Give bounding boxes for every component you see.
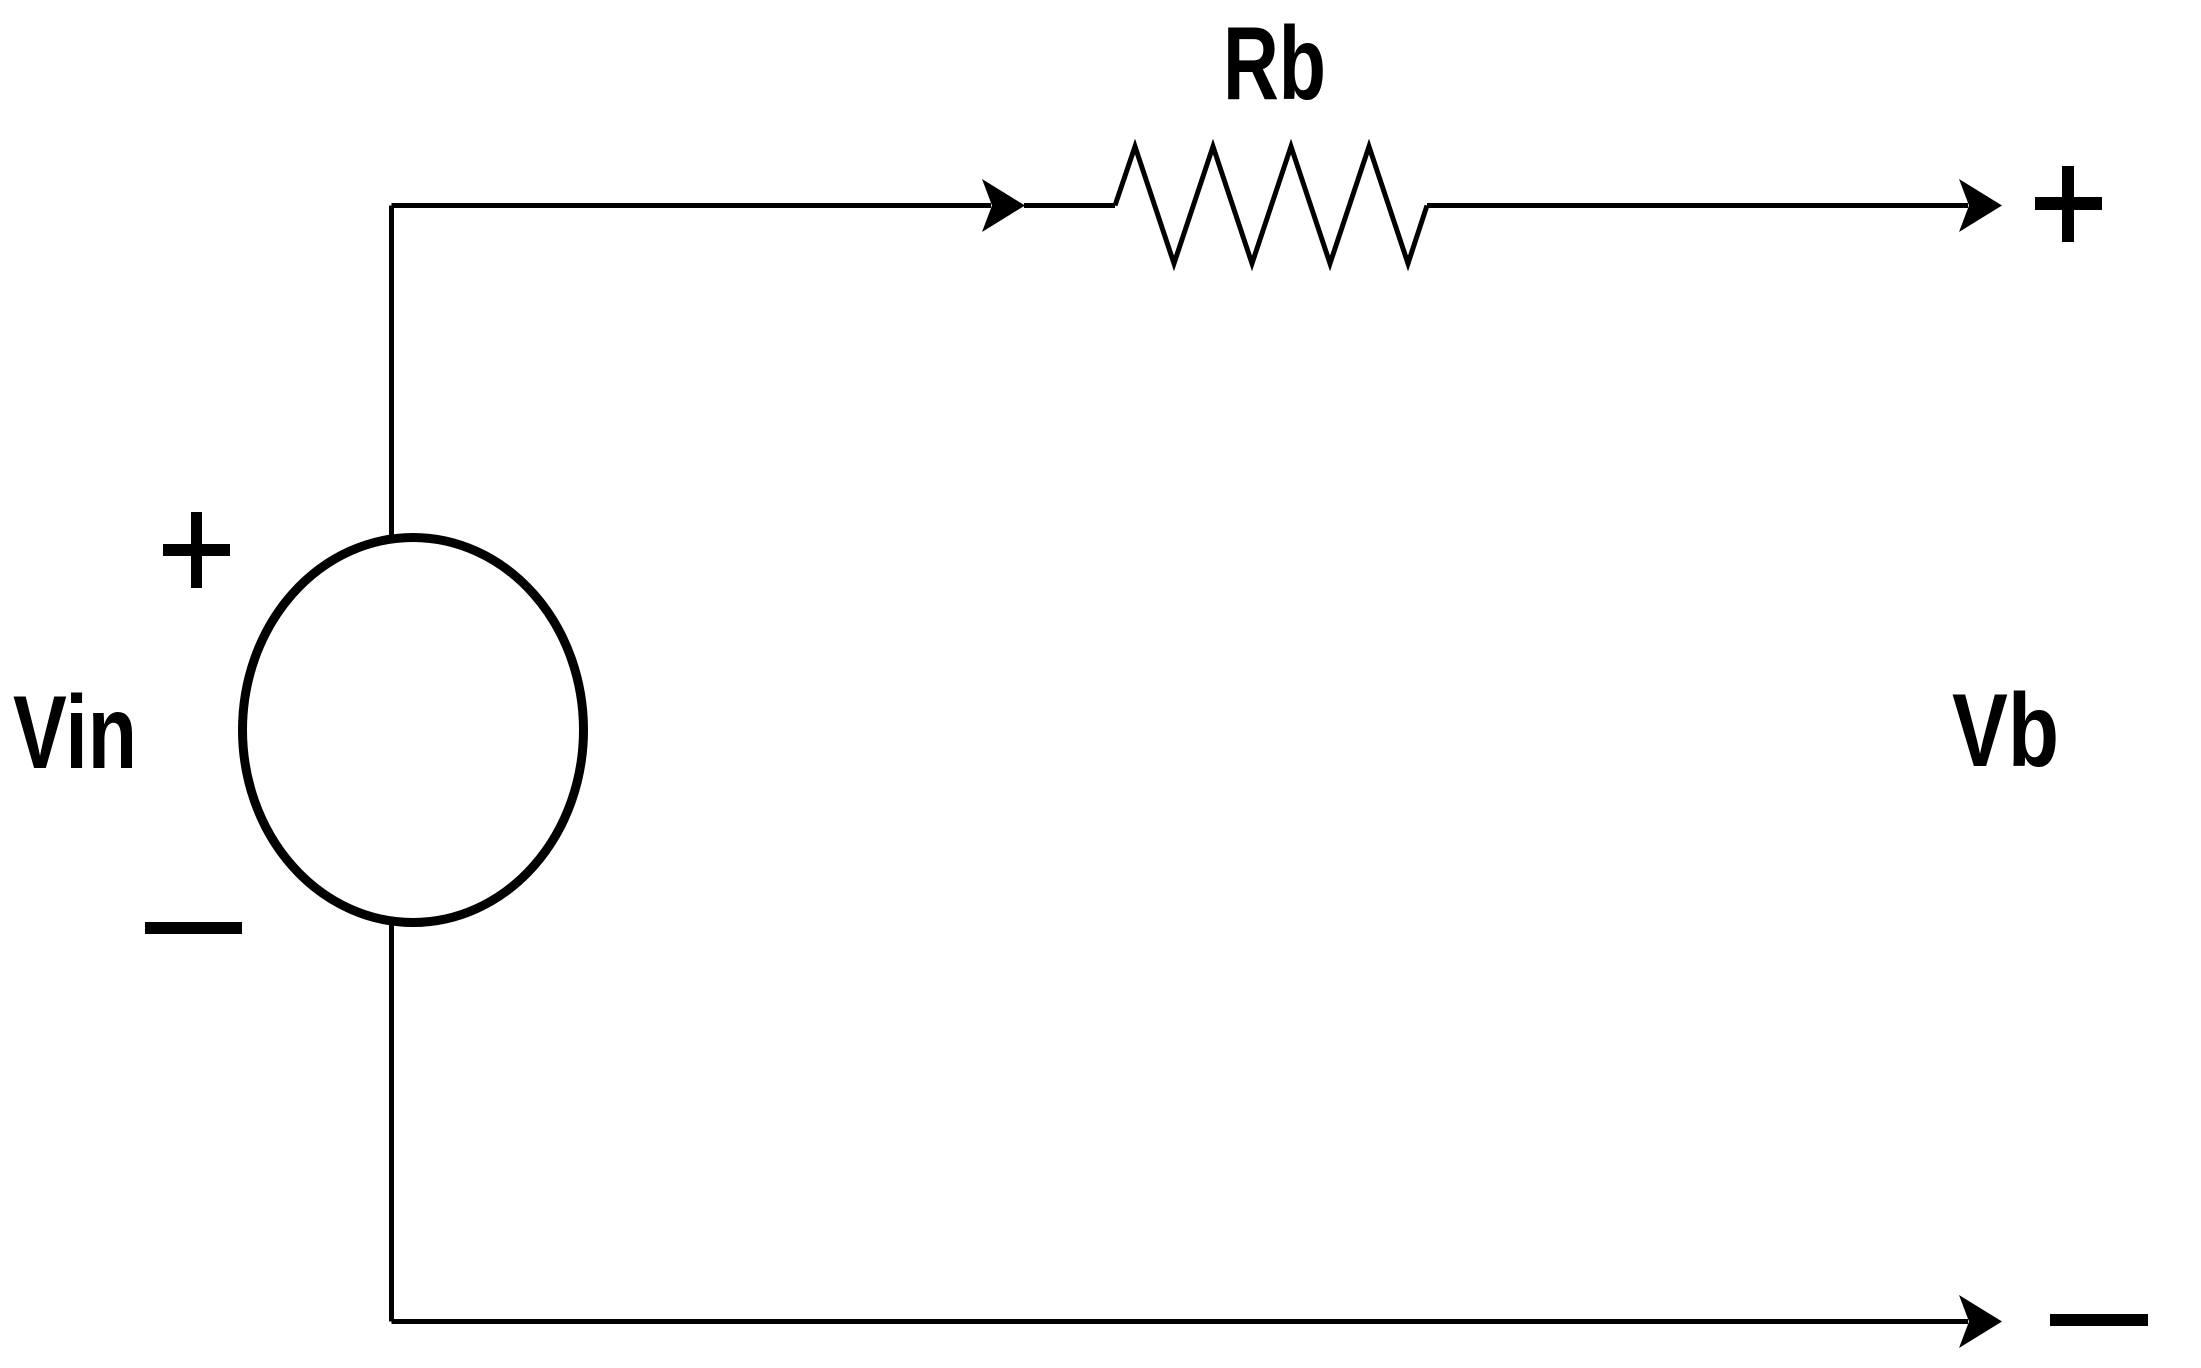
svg-text:Rb: Rb [1223, 6, 1326, 122]
svg-text:Vb: Vb [1952, 673, 2059, 789]
wire bottom horizontal to bottom end-arrow notch [392, 1319, 1969, 1324]
wire top-left vertical from top corner down to source top [389, 206, 394, 538]
wire after resistor to end-arrow notch [1427, 203, 1968, 208]
minus sign at output bottom-right [2050, 1314, 2148, 1326]
arrowhead mid top wire [982, 179, 1025, 232]
arrowhead top right end [1959, 179, 2002, 232]
svg-text:Vin: Vin [13, 675, 137, 791]
wire bottom vertical from source bottom down to bottom corner [389, 922, 394, 1322]
resistor Rb zigzag [1115, 147, 1427, 264]
wire top horizontal from corner to mid arrow notch [392, 203, 992, 208]
plus sign at source top-left [163, 512, 230, 588]
plus sign at output top-right [2035, 166, 2102, 242]
wire from mid arrow tip to resistor start [1024, 203, 1115, 208]
minus sign at source bottom-left [145, 922, 242, 934]
voltage source Vin circle [243, 538, 584, 923]
arrowhead bottom right end [1959, 1295, 2002, 1348]
